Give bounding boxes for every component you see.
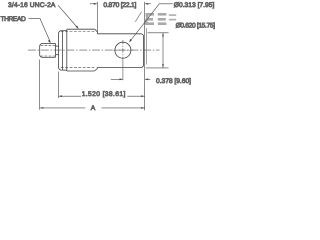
dim 1.520 [59, 95, 82, 97]
thread end step [97, 32, 99, 69]
leader for dia 0.313 [130, 4, 173, 42]
svg-text:0.378 [9.60]: 0.378 [9.60] [156, 78, 191, 85]
eye body [98, 34, 144, 68]
svg-text:1.520 [38.61]: 1.520 [38.61] [82, 91, 126, 98]
hole horizontal crosshair [114, 49, 134, 51]
watermark glyph 2 [158, 13, 167, 25]
thread minor dashed lines [61, 32, 96, 68]
flange [59, 31, 67, 70]
leader for 3/4-16 UNC-2A [58, 5, 78, 28]
svg-text:Ø0.620 [15.75]: Ø0.620 [15.75] [176, 23, 215, 30]
dia 0.620 dimension line with arrows [162, 33, 164, 68]
threaded stud [40, 44, 56, 58]
dim 0.870 left extension (and thread step line) [96, 2, 98, 32]
auxiliary vertical line at right end [146, 28, 148, 65]
dim 0.870 line left arrow [90, 3, 97, 5]
neck [56, 46, 59, 55]
dia 0.620 top extension [148, 32, 169, 34]
svg-text:3/4-16 UNC-2A: 3/4-16 UNC-2A [8, 2, 56, 9]
1.520 left extension [58, 72, 60, 99]
leader for THREAD [29, 19, 51, 42]
watermark glyph 1 [145, 13, 154, 25]
hole [115, 42, 131, 58]
hole vertical crosshair + extension for 0.378 [122, 40, 124, 61]
centerline (part axis) [28, 49, 160, 51]
threaded section [67, 29, 98, 71]
stud thread dashed lines [41, 45, 56, 56]
right extension line (shared by dims 0.870 / 0.378 / 1.520 / A) [144, 2, 146, 110]
svg-text:A: A [91, 105, 96, 112]
watermark dashes [169, 14, 176, 20]
watermark diagonal stroke [135, 12, 141, 22]
dim 0.870 line right arrow [145, 3, 151, 5]
svg-text:0.870 [22.1]: 0.870 [22.1] [103, 2, 136, 9]
svg-text:THREAD: THREAD [1, 16, 26, 23]
dim A [40, 107, 85, 109]
A left extension [39, 60, 41, 110]
dim 0.378 [111, 78, 123, 80]
dia 0.620 bottom extension [146, 67, 169, 69]
svg-text:Ø0.313 [7.95]: Ø0.313 [7.95] [174, 2, 215, 9]
